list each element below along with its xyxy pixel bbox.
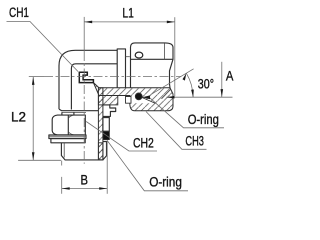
svg-text:L1: L1 <box>122 6 133 21</box>
svg-text:A: A <box>226 69 234 84</box>
svg-text:L2: L2 <box>11 110 26 125</box>
svg-text:CH1: CH1 <box>9 5 29 20</box>
svg-text:B: B <box>81 172 89 187</box>
svg-text:30°: 30° <box>198 77 214 92</box>
svg-text:CH3: CH3 <box>185 134 204 149</box>
svg-text:O-ring: O-ring <box>188 112 219 127</box>
svg-text:CH2: CH2 <box>133 136 154 151</box>
svg-text:O-ring: O-ring <box>149 174 182 189</box>
